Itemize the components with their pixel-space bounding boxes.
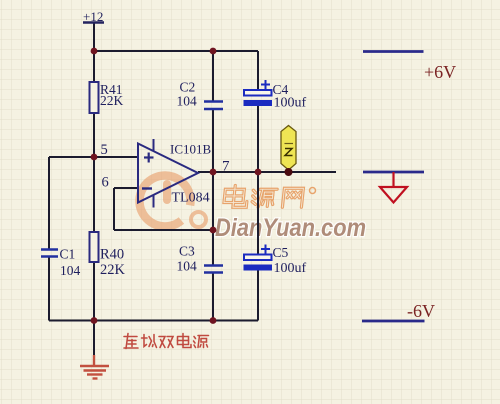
svg-text:IC101B: IC101B [170,142,212,157]
svg-text:104: 104 [177,259,198,274]
junction dot pin5 [91,154,98,161]
svg-text:22K: 22K [100,93,124,108]
svg-text:-6V: -6V [407,301,435,321]
wire R41 top [93,51,95,82]
junction dot feedback [210,227,217,234]
char 源 [194,336,209,348]
svg-text:7: 7 [222,159,230,175]
svg-text:22K: 22K [100,262,126,278]
svg-text:6: 6 [102,175,109,191]
svg-text:C1: C1 [60,247,76,262]
svg-text:TL084: TL084 [172,191,210,206]
power port GND right [363,172,424,203]
power port -6V [362,301,435,321]
junction dot top C2 [210,48,217,55]
svg-text:C2: C2 [180,80,196,95]
svg-text:100uf: 100uf [274,261,307,276]
wire feedback bottom [114,229,213,231]
wire R40 bottom [93,262,95,321]
capacitor C5 electrolytic [244,245,307,277]
svg-text:104: 104 [60,263,81,278]
junction dot output [210,169,217,176]
svg-text:100uf: 100uf [274,96,307,111]
wire below C1 [48,257,50,321]
capacitor C1 [41,247,81,279]
annotation 虚拟双电源 red text [124,334,209,349]
wire R41 bottom [93,113,95,157]
wire C2 stem top [212,51,214,101]
resistor R41 [90,82,124,113]
wire feedback left [113,188,115,230]
char 拟 [142,335,157,348]
char 双 [159,337,173,348]
wire R40 top [93,157,95,232]
ground earth symbol [80,355,109,379]
char 虚 [124,334,138,349]
svg-text:C5: C5 [273,245,289,260]
junction dot C4C5 [255,169,262,176]
wire mid output rail [198,171,336,173]
resistor R40 [90,232,126,278]
op-amp U1 IC101B triangle [138,139,198,208]
wire bottom rail [49,320,258,322]
wire top rail [93,50,258,52]
net label flag [281,126,296,171]
wire ground stem [93,321,95,357]
wire C3 top [212,172,214,265]
svg-text:104: 104 [177,94,198,109]
wire C5 bottom to bottom rail [257,270,259,321]
junction dot top-left [91,48,98,55]
capacitor C2 [177,80,224,110]
wire C4 drop [257,51,259,90]
junction dot bottom C3 [210,317,217,324]
junction dot flag [285,168,293,176]
wire feedback pin6 [114,187,138,189]
capacitor C3 [177,244,224,274]
capacitor C4 electrolytic [244,80,307,111]
wire C4 to mid rail [257,106,259,172]
power port +12 bar [83,21,104,23]
svg-text:R40: R40 [100,247,124,263]
wire +12 stem [93,23,95,52]
wire left column [48,157,50,249]
wire C2 bottom to output [212,109,214,172]
wire C5 top [257,172,259,254]
svg-text:+12: +12 [83,9,103,24]
watermark logo ring [139,175,206,227]
svg-text:+6V: +6V [424,62,456,82]
char 电 [178,334,192,348]
junction dot bottom ground [91,317,98,324]
wire pin5 input [49,156,138,158]
svg-text:DianYuan.com: DianYuan.com [215,214,366,242]
watermark DianYuan.com [215,214,366,242]
wire C3 bottom [212,273,214,321]
power port +6V [363,52,456,83]
svg-text:5: 5 [101,142,108,158]
svg-text:C3: C3 [179,244,195,259]
